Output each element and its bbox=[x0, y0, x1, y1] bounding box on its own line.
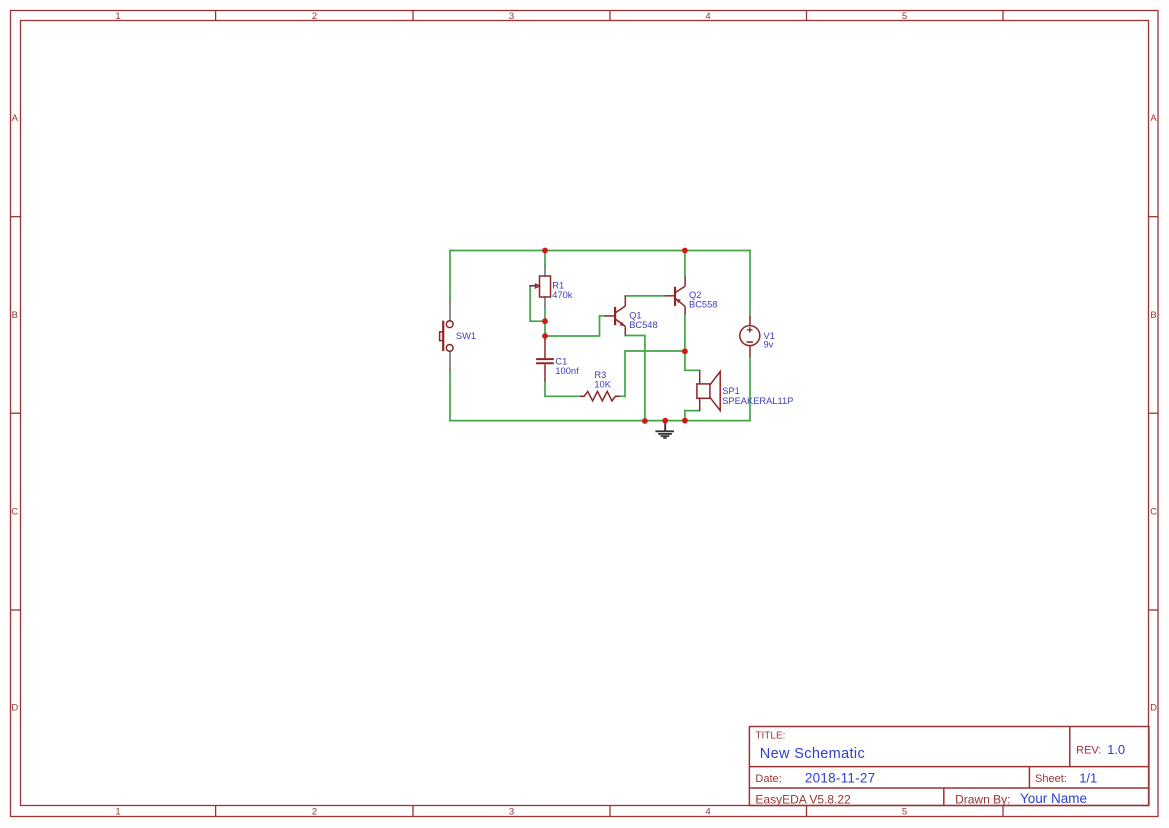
frame tick left C/D bbox=[11, 609, 21, 611]
frame tick top 3 bbox=[609, 11, 611, 21]
wire Q2 collector riser bbox=[684, 251, 686, 277]
title block row divider 1 bbox=[749, 766, 1149, 768]
svg-text:TITLE:: TITLE: bbox=[755, 731, 785, 742]
svg-text:10K: 10K bbox=[594, 379, 611, 389]
svg-text:2018-11-27: 2018-11-27 bbox=[805, 771, 876, 786]
svg-text:D: D bbox=[11, 703, 18, 714]
potentiometer R1 bbox=[534, 276, 551, 297]
svg-text:Sheet:: Sheet: bbox=[1035, 773, 1067, 785]
svg-text:REV:: REV: bbox=[1076, 745, 1101, 757]
svg-text:Your Name: Your Name bbox=[1020, 791, 1087, 806]
frame tick bottom 4 bbox=[806, 806, 808, 817]
junction ground symbol / rail bbox=[662, 418, 668, 424]
frame tick right B/C bbox=[1149, 412, 1159, 414]
wire left rail lower (from SW1) bbox=[449, 370, 451, 420]
junction speaker return / rail bbox=[682, 418, 688, 424]
pin R1 wiper stub bbox=[530, 285, 533, 287]
CIRCUIT bbox=[450, 251, 750, 422]
pin SW1 top lead bbox=[449, 301, 451, 321]
junction node A (C1/R1/base) bbox=[542, 333, 548, 339]
frame tick bottom 3 bbox=[609, 806, 611, 817]
svg-text:SPEAKERAL11P: SPEAKERAL11P bbox=[722, 396, 793, 406]
svg-text:3: 3 bbox=[509, 11, 514, 22]
title block outline bbox=[749, 727, 1149, 806]
svg-text:C: C bbox=[11, 507, 18, 518]
svg-text:SW1: SW1 bbox=[456, 331, 476, 341]
svg-text:2: 2 bbox=[312, 807, 317, 818]
speaker SP1 bbox=[697, 370, 720, 410]
wire top rail V+ bbox=[450, 250, 750, 252]
svg-text:100nf: 100nf bbox=[555, 366, 579, 376]
svg-text:R3: R3 bbox=[594, 370, 606, 380]
title block DrawnBy cell divider bbox=[943, 788, 945, 806]
pin SW1 bottom lead bbox=[449, 351, 451, 370]
svg-text:New Schematic: New Schematic bbox=[760, 746, 865, 762]
junction Q1 emitter / ground rail bbox=[642, 418, 648, 424]
junction R1 wiper node bbox=[542, 318, 548, 324]
wire right rail upper (to V1) bbox=[749, 251, 751, 317]
wire R3 right stub bbox=[620, 395, 625, 397]
svg-text:A: A bbox=[1150, 113, 1157, 124]
svg-text:BC548: BC548 bbox=[629, 320, 657, 330]
transistor Q2 BC558 bbox=[665, 276, 685, 314]
svg-text:B: B bbox=[12, 310, 18, 321]
svg-text:5: 5 bbox=[902, 807, 907, 818]
svg-text:Q1: Q1 bbox=[629, 311, 641, 321]
wire R1 bottom to node C1 top bbox=[544, 306, 546, 339]
svg-text:4: 4 bbox=[705, 11, 710, 22]
frame tick right C/D bbox=[1149, 609, 1159, 611]
wire R1 top lead bbox=[544, 251, 546, 267]
wire C1 bottom to R3 left bbox=[545, 381, 580, 396]
wire left rail upper (to SW1) bbox=[449, 251, 451, 302]
svg-text:Date:: Date: bbox=[755, 773, 781, 785]
wire right rail lower (from V1) bbox=[749, 357, 751, 421]
svg-text:Q2: Q2 bbox=[689, 290, 701, 300]
frame tick bottom 2 bbox=[412, 806, 414, 817]
svg-text:9v: 9v bbox=[764, 339, 774, 349]
wire node B to speaker top bbox=[685, 351, 700, 370]
voltage source V1 bbox=[740, 316, 760, 357]
wire R1 wiper loop bbox=[530, 287, 545, 322]
wire Q2 emitter to node B bbox=[684, 314, 686, 351]
pin R1 bottom bbox=[544, 297, 546, 306]
svg-text:R1: R1 bbox=[552, 281, 564, 291]
resistor R3 bbox=[580, 391, 620, 401]
wire bottom rail GND bbox=[450, 420, 750, 422]
svg-text:3: 3 bbox=[509, 807, 514, 818]
svg-text:4: 4 bbox=[705, 807, 710, 818]
wire node A to Q1 base riser bbox=[545, 316, 605, 336]
svg-text:1/1: 1/1 bbox=[1079, 770, 1097, 785]
frame tick top 5 bbox=[1002, 11, 1004, 21]
svg-text:Drawn By:: Drawn By: bbox=[955, 792, 1010, 806]
title block row divider 2 bbox=[749, 787, 1149, 789]
wire Q1 emitter to ground rail bbox=[625, 336, 645, 422]
frame tick top 2 bbox=[412, 11, 414, 21]
switch SW1 bbox=[440, 321, 454, 352]
svg-text:470k: 470k bbox=[552, 290, 573, 300]
frame tick left B/C bbox=[11, 412, 21, 414]
svg-text:C: C bbox=[1150, 507, 1157, 518]
title block Sheet cell divider bbox=[1028, 767, 1030, 788]
frame tick top 4 bbox=[806, 11, 808, 21]
svg-text:2: 2 bbox=[312, 11, 317, 22]
svg-text:BC558: BC558 bbox=[689, 299, 717, 309]
svg-text:1: 1 bbox=[115, 11, 120, 22]
svg-text:EasyEDA V5.8.22: EasyEDA V5.8.22 bbox=[755, 792, 851, 806]
capacitor C1 bbox=[536, 339, 554, 381]
junction top rail / Q2 collector bbox=[682, 248, 688, 254]
svg-text:C1: C1 bbox=[555, 356, 567, 366]
svg-text:B: B bbox=[1150, 310, 1156, 321]
frame tick left A/B bbox=[11, 216, 21, 218]
frame tick bottom 1 bbox=[215, 806, 217, 817]
frame tick right A/B bbox=[1149, 216, 1159, 218]
transistor Q1 BC548 bbox=[605, 296, 625, 336]
svg-text:D: D bbox=[1150, 703, 1157, 714]
svg-text:A: A bbox=[12, 113, 19, 124]
junction node B (Q2 emitter/R3) bbox=[682, 348, 688, 354]
pin R1 top bbox=[544, 266, 546, 276]
svg-text:1: 1 bbox=[115, 807, 120, 818]
svg-text:SP1: SP1 bbox=[722, 386, 740, 396]
junction top rail / R1 bbox=[542, 248, 548, 254]
frame tick bottom 5 bbox=[1002, 806, 1004, 817]
ground symbol bbox=[655, 421, 674, 438]
svg-text:5: 5 bbox=[902, 11, 907, 22]
wire Q1 collector to Q2 base bbox=[625, 295, 665, 297]
svg-text:1.0: 1.0 bbox=[1107, 742, 1125, 757]
wire speaker bottom to ground rail bbox=[685, 411, 700, 421]
frame tick top 1 bbox=[215, 11, 217, 21]
title block REV cell divider bbox=[1069, 727, 1071, 767]
wire R3 right riser to node B bbox=[625, 351, 685, 396]
